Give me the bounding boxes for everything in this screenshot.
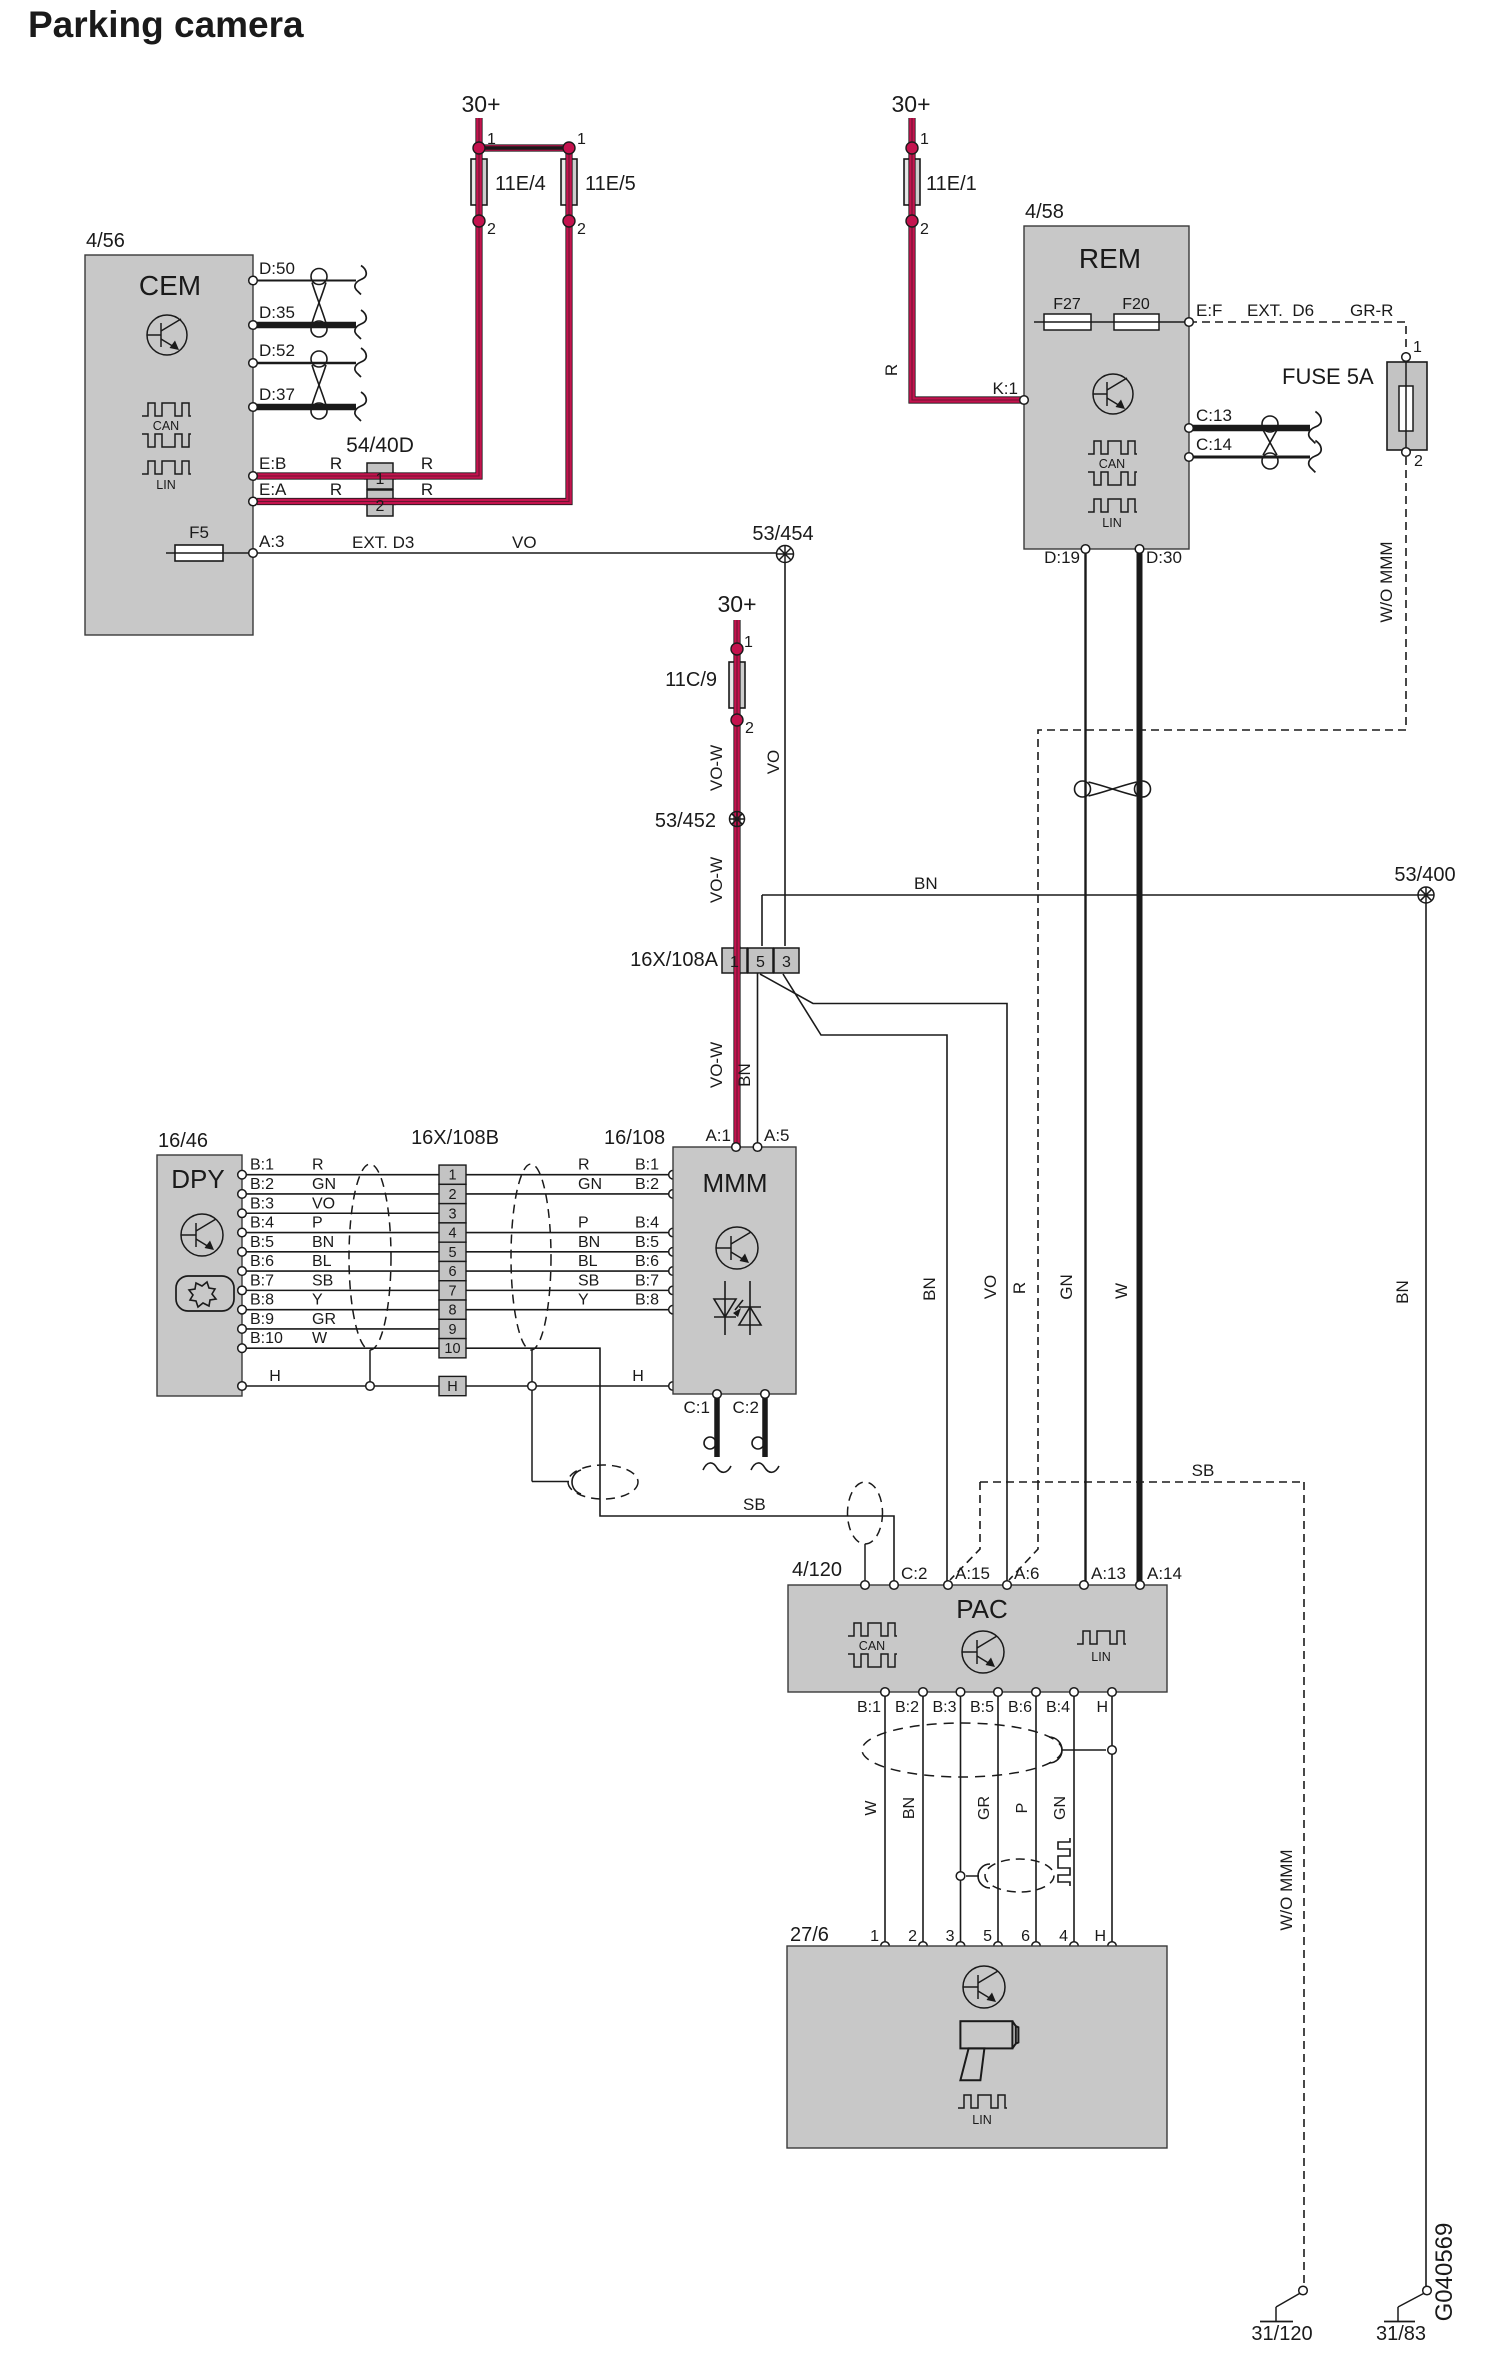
wire continuation D:35 [355, 310, 366, 339]
dashed wire W/O MMM right branch [1038, 457, 1406, 1482]
svg-text:R: R [330, 454, 342, 473]
wire R from 30+ through fuse 11E/1 to REM K:1 [912, 118, 1024, 400]
svg-text:11E/5: 11E/5 [585, 173, 636, 195]
svg-text:H: H [269, 1368, 281, 1385]
svg-text:D:50: D:50 [259, 259, 295, 278]
pin camera 4 [1070, 1942, 1079, 1951]
dashed wire SB W/O MMM horizontal [980, 1481, 1304, 1483]
wire through fuses F27 F20 to pin E:F [1034, 321, 1189, 323]
twisted pair symbol D:50/D:35 [311, 269, 327, 338]
svg-text:4/58: 4/58 [1025, 201, 1064, 223]
pin PAC shield [861, 1581, 870, 1590]
svg-text:LIN: LIN [972, 2113, 991, 2127]
wire connector pin 2 to MMM B:2 [466, 1193, 669, 1195]
svg-text:B:3: B:3 [932, 1699, 956, 1716]
svg-text:1: 1 [487, 131, 496, 148]
fuse 11E/1 [904, 159, 920, 205]
junction pin2 11E/5 [563, 215, 575, 227]
fuse 11E/4 [471, 159, 487, 205]
connector 16X/108B cell 9 [439, 1319, 466, 1338]
svg-text:A:14: A:14 [1147, 1564, 1182, 1583]
svg-text:VO: VO [312, 1195, 335, 1212]
wire DPY B:2 to connector 16X/108B pin 2 [246, 1193, 439, 1195]
svg-text:B:5: B:5 [635, 1234, 659, 1251]
svg-text:1: 1 [744, 634, 753, 651]
CAN symbol REM [1088, 441, 1137, 454]
wire DPY H to connector H [246, 1385, 439, 1387]
shield ellipse on SB vertical [568, 1465, 638, 1499]
svg-text:MMM: MMM [703, 1168, 768, 1198]
svg-text:R: R [330, 480, 342, 499]
svg-text:B:2: B:2 [895, 1699, 919, 1716]
pin C:13 [1185, 424, 1194, 433]
svg-text:53/452: 53/452 [655, 810, 716, 832]
wire connector pin 4 to MMM B:4 [466, 1232, 669, 1234]
fuse F27 in REM [1044, 314, 1091, 330]
svg-text:LIN: LIN [1091, 1650, 1110, 1664]
svg-text:Parking camera: Parking camera [28, 4, 304, 45]
svg-text:B:8: B:8 [250, 1292, 274, 1309]
pin PAC B:3 [956, 1688, 965, 1697]
wire continuation D:50 [355, 266, 366, 295]
display unit DPY 16/46 box [157, 1155, 242, 1396]
wire connector H to MMM H [466, 1385, 669, 1387]
svg-text:30+: 30+ [461, 91, 500, 117]
control unit CEM 4/56 box [85, 255, 253, 635]
pin D:30 [1135, 545, 1144, 554]
svg-text:11C/9: 11C/9 [665, 669, 717, 691]
svg-text:PAC: PAC [956, 1594, 1008, 1624]
pin DPY B:3 [238, 1209, 247, 1218]
svg-text:5: 5 [756, 954, 765, 971]
svg-text:27/6: 27/6 [790, 1924, 829, 1946]
thyristor symbol MMM [714, 1281, 761, 1335]
svg-text:B:6: B:6 [635, 1253, 659, 1270]
wire PAC B:6 to camera pin 6 [1035, 1692, 1037, 1946]
svg-text:2: 2 [487, 221, 496, 238]
transistor symbol PAC [962, 1631, 1004, 1673]
wire D:37 [257, 404, 356, 411]
junction pin2 11E/1 [906, 215, 918, 227]
svg-text:EXT. D3: EXT. D3 [352, 533, 414, 552]
svg-text:CAN: CAN [1099, 457, 1125, 471]
svg-text:A:15: A:15 [955, 1564, 990, 1583]
pin MMM B:1 [669, 1170, 678, 1179]
svg-text:3: 3 [782, 954, 791, 971]
pin MMM B:8 [669, 1305, 678, 1314]
svg-text:B:6: B:6 [1008, 1699, 1032, 1716]
wire continuation C:13 [1309, 412, 1322, 444]
transistor symbol CEM [147, 315, 187, 355]
svg-text:A:3: A:3 [259, 532, 285, 551]
connector 16X/108B cell 8 [439, 1300, 466, 1319]
wire EXT. D3 VO from CEM A:3 to node 53/454 [257, 552, 785, 554]
svg-text:LIN: LIN [156, 478, 175, 492]
LIN symbol PAC [1077, 1631, 1126, 1644]
svg-text:E:B: E:B [259, 454, 286, 473]
svg-text:H: H [447, 1379, 457, 1395]
svg-text:B:6: B:6 [250, 1253, 274, 1270]
svg-text:1: 1 [448, 1168, 456, 1184]
svg-text:E:A: E:A [259, 480, 287, 499]
pin PAC B:6 [1032, 1688, 1041, 1697]
connector 16X/108B cell 2 [439, 1184, 466, 1203]
pin MMM B:6 [669, 1267, 678, 1276]
svg-text:2: 2 [908, 1928, 917, 1945]
pin PAC B:1 [881, 1688, 890, 1697]
wire connector pin 7 to MMM B:7 [466, 1289, 669, 1291]
pin MMM H [669, 1382, 678, 1391]
pin MMM B:5 [669, 1248, 678, 1257]
LIN symbol REM [1088, 499, 1137, 512]
pin DPY B:5 [238, 1248, 247, 1257]
dashed wire SB down to ground 31/120 [1303, 1482, 1305, 2287]
svg-text:53/400: 53/400 [1394, 864, 1455, 886]
svg-text:GN: GN [1057, 1274, 1076, 1300]
svg-text:BL: BL [312, 1253, 332, 1270]
svg-text:VO: VO [981, 1275, 1000, 1300]
junction pin1 11C/9 [731, 643, 743, 655]
svg-text:D:35: D:35 [259, 303, 295, 322]
svg-text:W: W [312, 1330, 328, 1347]
svg-text:5: 5 [983, 1928, 992, 1945]
wire BN corner down to connector pin 5 [761, 895, 763, 946]
display screen symbol DPY [176, 1276, 234, 1311]
svg-text:R: R [312, 1157, 324, 1174]
svg-text:GR: GR [312, 1311, 336, 1328]
pin MMM B:4 [669, 1228, 678, 1237]
svg-text:31/120: 31/120 [1251, 2323, 1312, 2345]
svg-text:GN: GN [312, 1176, 336, 1193]
svg-text:BN: BN [735, 1063, 754, 1087]
pin DPY B:7 [238, 1286, 247, 1295]
pin D:37 [249, 403, 258, 412]
wire from connector pin 3 to PAC A:15 [783, 974, 947, 1582]
svg-text:4/120: 4/120 [792, 1559, 842, 1581]
fuse 11C/9 [729, 662, 745, 708]
svg-text:W/O MMM: W/O MMM [1277, 1849, 1296, 1930]
shield ellipse video pair [985, 1859, 1054, 1892]
svg-text:D:37: D:37 [259, 385, 295, 404]
transistor symbol MMM [716, 1227, 758, 1269]
svg-text:GR-R: GR-R [1350, 301, 1393, 320]
svg-text:B:5: B:5 [250, 1234, 274, 1251]
wire GN from REM D:19 to PAC A:13 [1084, 549, 1086, 1582]
svg-text:A:6: A:6 [1014, 1564, 1040, 1583]
svg-text:16/108: 16/108 [604, 1127, 665, 1149]
svg-text:B:5: B:5 [970, 1699, 994, 1716]
svg-text:3: 3 [946, 1928, 955, 1945]
pin MMM C:1 [713, 1390, 722, 1399]
wire DPY B:4 to connector 16X/108B pin 4 [246, 1232, 439, 1234]
connector 16X/108B cell 4 [439, 1223, 466, 1242]
svg-text:1: 1 [577, 131, 586, 148]
svg-text:2: 2 [448, 1187, 456, 1203]
svg-text:GN: GN [1052, 1796, 1069, 1820]
pin DPY B:9 [238, 1325, 247, 1334]
svg-text:F5: F5 [189, 523, 209, 542]
pin MMM B:7 [669, 1286, 678, 1295]
wire connector pin 6 to MMM B:6 [466, 1270, 669, 1272]
wire C:13 [1193, 425, 1310, 432]
shield ellipse DPY side [349, 1164, 391, 1350]
wire BN from connector pin 5 to MMM A:5 [757, 973, 759, 1147]
svg-text:B:10: B:10 [250, 1330, 283, 1347]
parking camera control unit PAC 4/120 box [788, 1585, 1167, 1692]
wire PAC B:4 to camera pin 4 [1073, 1692, 1075, 1946]
wire DPY B:6 to connector 16X/108B pin 6 [246, 1270, 439, 1272]
connector 16X/108B cell 3 [439, 1204, 466, 1223]
pin D:19 [1081, 545, 1090, 554]
svg-text:A:5: A:5 [764, 1126, 790, 1145]
svg-text:CEM: CEM [139, 270, 201, 301]
svg-text:4: 4 [448, 1226, 456, 1242]
svg-text:4/56: 4/56 [86, 230, 125, 252]
pin E:F [1185, 318, 1194, 327]
svg-text:LIN: LIN [1102, 516, 1121, 530]
svg-text:C:1: C:1 [684, 1398, 710, 1417]
svg-text:P: P [578, 1215, 589, 1232]
svg-text:W: W [1112, 1283, 1131, 1299]
pin PAC B:4 [1070, 1688, 1079, 1697]
svg-text:BN: BN [312, 1234, 334, 1251]
LIN symbol camera [958, 2095, 1007, 2108]
pin K:1 [1020, 396, 1029, 405]
svg-text:C:14: C:14 [1196, 435, 1232, 454]
wire stub MMM C:1 [714, 1394, 720, 1457]
svg-text:SB: SB [743, 1495, 766, 1514]
pin E:B [249, 472, 258, 481]
wire connector pin 1 to MMM B:1 [466, 1174, 669, 1176]
transistor symbol camera [963, 1966, 1005, 2008]
svg-text:REM: REM [1079, 243, 1141, 274]
svg-text:F20: F20 [1122, 296, 1150, 313]
shield ellipse camera harness [862, 1723, 1062, 1777]
svg-text:A:1: A:1 [705, 1126, 731, 1145]
svg-text:16X/108A: 16X/108A [630, 949, 719, 971]
svg-text:53/454: 53/454 [752, 523, 813, 545]
svg-text:6: 6 [1021, 1928, 1030, 1945]
wire W from REM D:30 to PAC A:14 [1137, 549, 1143, 1582]
svg-text:F27: F27 [1053, 296, 1081, 313]
svg-text:BN: BN [920, 1277, 939, 1301]
shield ellipse on SB horizontal [848, 1482, 883, 1544]
wire DPY B:10 to connector 16X/108B pin 10 [246, 1347, 439, 1349]
svg-text:2: 2 [376, 498, 385, 515]
svg-text:H: H [1096, 1699, 1108, 1716]
pin DPY B:6 [238, 1267, 247, 1276]
svg-text:C:2: C:2 [733, 1398, 759, 1417]
svg-text:G040569: G040569 [1431, 2223, 1458, 2322]
dashed branch to PAC A:15 [950, 1482, 980, 1580]
wire VO from node 53/454 down to connector pin 3 [784, 562, 786, 946]
svg-text:B:1: B:1 [250, 1157, 274, 1174]
wire DPY B:7 to connector 16X/108B pin 7 [246, 1289, 439, 1291]
shield drain to H wire MMM side [531, 1350, 533, 1382]
pin C:14 [1185, 453, 1194, 462]
pin DPY B:1 [238, 1170, 247, 1179]
svg-text:C:2: C:2 [901, 1564, 927, 1583]
svg-text:B:8: B:8 [635, 1292, 659, 1309]
svg-text:11E/1: 11E/1 [926, 173, 977, 195]
shield drain to H wire camera harness [1049, 1737, 1062, 1763]
svg-text:GN: GN [578, 1176, 602, 1193]
svg-text:BL: BL [578, 1253, 598, 1270]
shield ellipse MMM side [511, 1164, 551, 1350]
svg-text:11E/4: 11E/4 [495, 173, 546, 195]
svg-text:B:1: B:1 [857, 1699, 881, 1716]
svg-text:R: R [1010, 1282, 1029, 1294]
svg-text:16X/108B: 16X/108B [411, 1127, 499, 1149]
svg-text:B:7: B:7 [635, 1272, 659, 1289]
svg-text:CAN: CAN [859, 1639, 885, 1653]
svg-text:SB: SB [578, 1272, 599, 1289]
svg-text:CAN: CAN [153, 419, 179, 433]
LIN symbol CEM [142, 461, 191, 474]
wire PAC B:1 to camera pin 1 [884, 1692, 886, 1946]
svg-text:VO: VO [764, 750, 783, 775]
connector 16X/108B cell 10 [439, 1339, 466, 1358]
svg-text:H: H [632, 1368, 644, 1385]
wire R from 30+ through fuse 11E/4 to CEM E:B [257, 118, 479, 476]
pin camera 1 [881, 1942, 890, 1951]
pin A:3 [249, 549, 258, 558]
pin PAC C:2 [890, 1581, 899, 1590]
svg-text:FUSE 5A: FUSE 5A [1282, 364, 1374, 389]
svg-text:30+: 30+ [717, 591, 756, 617]
wire continuation D:37 [355, 392, 366, 421]
fuse 11E/5 [561, 159, 577, 205]
svg-text:B:4: B:4 [635, 1215, 659, 1232]
shield drain to PAC pin [864, 1544, 866, 1580]
connector 16X/108B cell 6 [439, 1261, 466, 1280]
svg-text:VO: VO [512, 533, 537, 552]
twisted pair symbol D:19/D:30 [1075, 781, 1151, 797]
dashed branch to PAC A:6 [1009, 1482, 1038, 1580]
svg-text:BN: BN [901, 1797, 918, 1819]
wire DPY B:8 to connector 16X/108B pin 8 [246, 1309, 439, 1311]
svg-text:E:F: E:F [1196, 301, 1222, 320]
svg-text:30+: 30+ [891, 91, 930, 117]
svg-text:6: 6 [448, 1264, 456, 1280]
ground 31/83 [1423, 2286, 1432, 2295]
connector 16X/108B cell 1 [439, 1165, 466, 1184]
pin D:50 [249, 276, 258, 285]
pin D:52 [249, 359, 258, 368]
pin camera H [1108, 1942, 1117, 1951]
svg-text:DPY: DPY [171, 1164, 224, 1194]
svg-text:BN: BN [1393, 1280, 1412, 1304]
pin DPY B:8 [238, 1305, 247, 1314]
svg-text:W/O MMM: W/O MMM [1377, 541, 1396, 622]
svg-text:BN: BN [914, 874, 938, 893]
svg-text:VO-W: VO-W [707, 857, 726, 903]
svg-text:R: R [421, 454, 433, 473]
pin 2 of FUSE 5A [1402, 448, 1411, 457]
wire connector pin 5 to MMM B:5 [466, 1251, 669, 1253]
svg-text:1: 1 [730, 954, 739, 971]
pin MMM A:5 [753, 1143, 762, 1152]
svg-text:10: 10 [444, 1341, 460, 1357]
pin camera 3 [956, 1942, 965, 1951]
svg-text:VO-W: VO-W [707, 745, 726, 791]
svg-text:D:19: D:19 [1044, 548, 1080, 567]
wire connector pin 8 to MMM B:8 [466, 1309, 669, 1311]
fuse F20 in REM [1114, 314, 1159, 330]
pin PAC B:5 [994, 1688, 1003, 1697]
svg-text:A:13: A:13 [1091, 1564, 1126, 1583]
svg-text:B:2: B:2 [635, 1176, 659, 1193]
wire continuation D:52 [355, 348, 366, 377]
shield drain to B:3 wire [978, 1864, 990, 1888]
junction pin2 11C/9 [731, 714, 743, 726]
connector 16X/108B cell 5 [439, 1242, 466, 1261]
svg-text:2: 2 [1414, 453, 1423, 470]
svg-text:B:2: B:2 [250, 1176, 274, 1193]
wire C:14 [1193, 456, 1310, 459]
svg-text:7: 7 [448, 1283, 456, 1299]
svg-text:B:4: B:4 [250, 1215, 274, 1232]
CAN symbol CEM [142, 403, 191, 416]
connector 16X/108B cell H [439, 1376, 466, 1395]
svg-text:W: W [863, 1800, 880, 1816]
svg-text:SB: SB [1192, 1461, 1215, 1480]
wire SB from connector pin 10 to PAC C:2 [466, 1348, 894, 1582]
transistor symbol DPY [181, 1214, 223, 1256]
pin DPY B:2 [238, 1190, 247, 1199]
camera symbol [960, 2021, 1018, 2080]
svg-text:D:30: D:30 [1146, 548, 1182, 567]
svg-text:SB: SB [312, 1272, 333, 1289]
pin PAC A:14 [1136, 1581, 1145, 1590]
pin DPY B:10 [238, 1344, 247, 1353]
ground 31/120 [1299, 2286, 1308, 2295]
svg-text:3: 3 [448, 1206, 456, 1222]
pin 1 of FUSE 5A [1402, 353, 1411, 362]
wire DPY B:3 to connector 16X/108B pin 3 [246, 1212, 439, 1214]
svg-text:1: 1 [376, 471, 385, 488]
pin E:A [249, 497, 258, 506]
LIN marker on GN wire [1058, 1838, 1070, 1886]
svg-text:16/46: 16/46 [158, 1130, 208, 1152]
wire D:50 [257, 280, 356, 282]
connector 16X/108B cell 7 [439, 1281, 466, 1300]
control unit REM 4/58 box [1024, 226, 1189, 549]
svg-text:BN: BN [578, 1234, 600, 1251]
svg-text:8: 8 [448, 1303, 456, 1319]
wire R from fuse 11E/5 to CEM E:A [257, 148, 569, 502]
pin DPY H [238, 1382, 247, 1391]
svg-text:Y: Y [578, 1292, 589, 1309]
wire BN from node 53/400 down to ground 31/83 [1425, 903, 1427, 2288]
svg-text:31/83: 31/83 [1376, 2323, 1426, 2345]
svg-text:R: R [578, 1157, 590, 1174]
pin camera 5 [994, 1942, 1003, 1951]
dashed wire EXT. D6 GR-R from E:F [1189, 322, 1406, 353]
wire continuation C:14 [1309, 441, 1322, 473]
svg-text:B:1: B:1 [635, 1157, 659, 1174]
wire D:35 [257, 322, 356, 329]
svg-text:R: R [882, 364, 901, 376]
pin camera 6 [1032, 1942, 1041, 1951]
svg-text:EXT. D6: EXT. D6 [1247, 301, 1314, 320]
svg-text:D:52: D:52 [259, 341, 295, 360]
svg-text:Y: Y [312, 1292, 323, 1309]
svg-text:2: 2 [577, 221, 586, 238]
wire DPY B:5 to connector 16X/108B pin 5 [246, 1251, 439, 1253]
svg-text:C:13: C:13 [1196, 406, 1232, 425]
svg-text:B:9: B:9 [250, 1311, 274, 1328]
